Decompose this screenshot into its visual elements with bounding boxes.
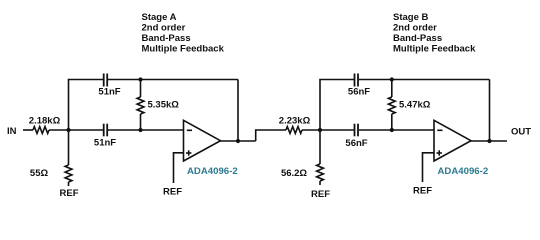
svg-text:5.47kΩ: 5.47kΩ	[399, 100, 431, 111]
wire stage link step	[256, 130, 286, 141]
wire C1 to op-amp U1A inverting input	[108, 129, 184, 131]
junction dot top rail 2 / R6	[390, 77, 394, 81]
wire node A up to top rail	[68, 80, 70, 131]
svg-text:IN: IN	[7, 126, 17, 137]
svg-text:55Ω: 55Ω	[30, 168, 49, 179]
svg-text:OUT: OUT	[511, 127, 531, 138]
svg-text:56nF: 56nF	[345, 138, 367, 149]
capacitor C4	[355, 74, 359, 87]
svg-text:51nF: 51nF	[94, 138, 116, 149]
svg-text:ADA4096-2: ADA4096-2	[438, 166, 489, 177]
svg-text:Multiple Feedback: Multiple Feedback	[142, 44, 225, 55]
node B junction dot	[318, 128, 322, 132]
svg-text:2.23kΩ: 2.23kΩ	[279, 116, 311, 127]
node output U1A junction dot	[236, 139, 240, 143]
svg-text:56.2Ω: 56.2Ω	[281, 168, 307, 179]
wire top rail 2 right segment	[359, 79, 490, 81]
svg-text:Band-Pass: Band-Pass	[393, 33, 442, 44]
wire top rail right segment	[108, 79, 238, 81]
wire R1 to node A	[49, 129, 69, 131]
op-amp U1A minus pin mark	[187, 129, 192, 131]
svg-text:REF: REF	[311, 189, 330, 200]
junction dot top rail / R2	[138, 77, 142, 81]
resistor R7 vertical from node B	[317, 130, 324, 185]
capacitor C1	[104, 124, 108, 137]
resistor R1	[33, 127, 49, 134]
wire op-amp U1B output	[470, 140, 507, 142]
wire feedback up from output node	[237, 80, 239, 142]
wire C3 to op-amp U1B inverting input	[359, 129, 434, 131]
label Stage A heading	[142, 12, 225, 55]
wire top rail 2 left segment	[319, 79, 354, 81]
svg-text:5.35kΩ: 5.35kΩ	[148, 100, 180, 111]
capacitor C3	[355, 124, 359, 137]
op-amp U1B	[434, 120, 471, 161]
resistor R5	[286, 127, 302, 134]
resistor R4 vertical from node A	[65, 130, 72, 186]
wire top rail left segment	[68, 79, 103, 81]
wire op-amp U1A output	[220, 140, 256, 142]
op-amp U1B minus pin mark	[437, 129, 442, 131]
node A junction dot	[66, 128, 70, 132]
svg-text:REF: REF	[413, 186, 432, 197]
op-amp U1A	[184, 120, 221, 161]
svg-text:Stage A: Stage A	[142, 12, 177, 23]
svg-text:Band-Pass: Band-Pass	[142, 33, 191, 44]
label Stage B heading	[393, 12, 476, 55]
svg-text:Multiple Feedback: Multiple Feedback	[393, 44, 476, 55]
resistor R6 vertical	[388, 80, 395, 131]
svg-text:51nF: 51nF	[98, 87, 120, 98]
svg-text:56nF: 56nF	[348, 87, 370, 98]
svg-text:2nd order: 2nd order	[393, 23, 437, 34]
node output U1B junction dot	[487, 139, 491, 143]
wire R5 to node B	[302, 129, 320, 131]
svg-text:Stage B: Stage B	[393, 12, 429, 23]
svg-text:ADA4096-2: ADA4096-2	[187, 166, 238, 177]
resistor R2 vertical	[137, 80, 144, 131]
wire op-amp U1B plus input to REF stub	[423, 153, 435, 182]
wire node B up to top rail	[319, 80, 321, 131]
svg-text:REF: REF	[60, 188, 79, 199]
op-amp U1B plus pin mark	[437, 150, 442, 155]
wire node A to C1	[69, 129, 104, 131]
svg-text:2.18kΩ: 2.18kΩ	[29, 116, 61, 127]
svg-text:REF: REF	[163, 187, 182, 198]
wire node B to C3	[320, 129, 354, 131]
svg-text:2nd order: 2nd order	[142, 23, 186, 34]
wire IN to R1	[23, 129, 33, 131]
junction dot R6 / inverting rail 2	[390, 128, 394, 132]
op-amp U1A plus pin mark	[186, 150, 191, 155]
capacitor C2	[104, 74, 108, 87]
wire feedback up from output node 2	[489, 80, 491, 142]
junction dot R2 / inverting rail	[138, 128, 142, 132]
wire op-amp U1A plus input to REF stub	[174, 153, 184, 183]
